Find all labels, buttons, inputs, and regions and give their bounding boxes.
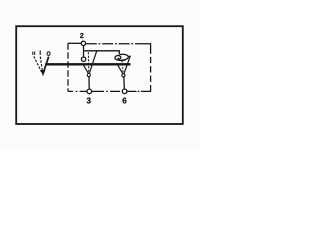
coupling line bottom-right dash-dot to terminal 6 (127, 90, 141, 92)
wire terminal 3 to terminal 6 (dash-dot) (92, 90, 122, 92)
switch position label 0 (47, 52, 50, 56)
right contact arm (solid diagonal) (124, 56, 130, 74)
terminal 6 (122, 89, 127, 94)
switch position label I (39, 50, 41, 55)
wiper arm in position 0 (solid) (44, 57, 49, 72)
wire tip to terminal 6 (123, 77, 125, 89)
wire tip to terminal 3 (88, 77, 90, 89)
lighter coil tail (128, 56, 130, 57)
busbar wire (45, 63, 130, 65)
right contact arm dashed centre line (122, 61, 123, 73)
switch position label II (33, 52, 35, 55)
lighter coil symbol (115, 54, 128, 60)
wiper arm to position II (dashed) (34, 56, 42, 72)
wiper arrowhead (41, 70, 46, 76)
terminal 1 (81, 57, 85, 61)
enclosure border (16, 26, 183, 124)
svg-text:6: 6 (122, 96, 127, 105)
wire vertical link (dash-dot) (67, 43, 69, 91)
lighter coil inner wave (120, 59, 125, 62)
middle contact left prong (84, 65, 89, 73)
terminal 2 (81, 41, 85, 45)
wire link 2 to coupling line (dash-dot, top) (86, 43, 144, 45)
svg-text:3: 3 (86, 96, 91, 105)
coupling line right vertical (dashed) (150, 48, 152, 87)
wire corner to terminal 2 (68, 42, 81, 44)
coupling line top-right corner (144, 44, 151, 48)
wire terminal 2 to terminal 1 (83, 46, 85, 57)
middle contact tip (87, 74, 90, 77)
right contact tip (122, 74, 125, 77)
middle contact arm dashed centre line (87, 52, 89, 73)
terminal 3 (87, 89, 92, 94)
svg-text:2: 2 (80, 33, 84, 40)
coupling line to terminal 6 (dash-dot) (141, 86, 151, 91)
wire feed to lighter coil (84, 51, 120, 55)
wire bottom link to terminal 3 (dash-dot) (68, 90, 87, 92)
wiper arm to position I (dashed) (40, 57, 42, 73)
middle contact arm (solid diagonal) (89, 51, 96, 74)
right contact left prong (118, 65, 123, 73)
